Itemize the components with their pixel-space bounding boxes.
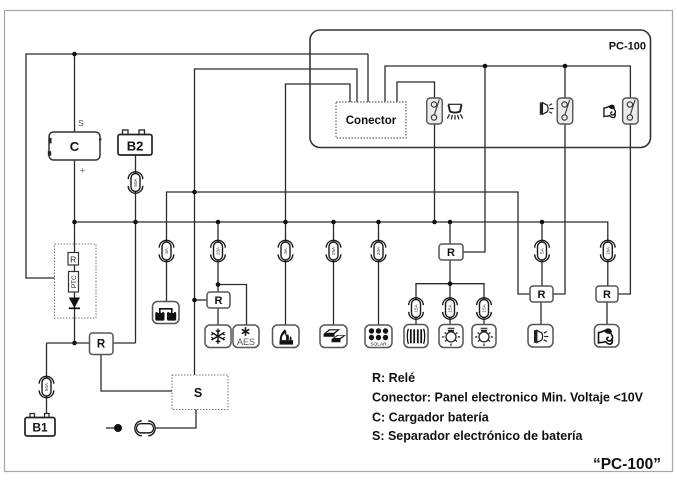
svg-text:5A: 5A [540, 247, 545, 254]
svg-text:R: R [447, 247, 455, 259]
svg-text:PTC: PTC [71, 275, 78, 288]
svg-text:R: R [97, 339, 106, 351]
svg-text:S: Separador electrónico de ba: S: Separador electrónico de batería [372, 429, 584, 443]
svg-text:R: R [603, 289, 611, 301]
svg-text:20A: 20A [376, 246, 381, 255]
svg-text:“PC-100”: “PC-100” [593, 456, 661, 473]
svg-text:R: Relé: R: Relé [372, 371, 415, 385]
svg-text:R: R [70, 255, 76, 265]
svg-text:C: C [70, 139, 80, 154]
svg-text:C: Cargador batería: C: Cargador batería [372, 411, 490, 425]
svg-text:50A: 50A [44, 382, 49, 391]
svg-text:B1: B1 [32, 421, 48, 435]
svg-text:B2: B2 [127, 139, 144, 154]
svg-text:3A: 3A [283, 247, 288, 254]
svg-text:20A: 20A [216, 246, 221, 255]
svg-text:15A: 15A [448, 303, 453, 312]
svg-text:R: R [538, 289, 546, 301]
svg-text:50A: 50A [133, 177, 138, 186]
svg-text:Conector: Conector [346, 115, 397, 127]
svg-text:3A: 3A [164, 247, 169, 254]
svg-text:Conector: Panel electronico Mi: Conector: Panel electronico Min. Voltaje… [372, 391, 644, 405]
svg-text:S: S [78, 118, 84, 128]
svg-text:15A: 15A [482, 303, 487, 312]
svg-text:S: S [194, 386, 202, 400]
svg-text:R: R [215, 295, 223, 307]
svg-text:AES: AES [237, 337, 255, 347]
svg-text:16A: 16A [605, 246, 610, 255]
svg-text:SOLAR: SOLAR [370, 342, 387, 348]
svg-text:15A: 15A [414, 303, 419, 312]
svg-text:+: + [80, 166, 86, 177]
svg-text:PC-100: PC-100 [609, 41, 646, 53]
svg-text:25A: 25A [331, 246, 336, 255]
